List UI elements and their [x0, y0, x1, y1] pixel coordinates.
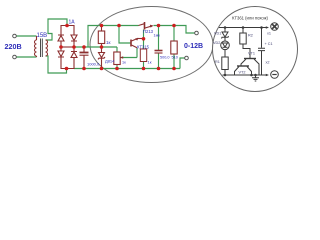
svg-text:Д814: Д814	[105, 59, 115, 64]
svg-text:+ С1: + С1	[265, 42, 273, 46]
svg-text:1к: 1к	[148, 60, 152, 65]
svg-text:КТ315: КТ315	[137, 45, 150, 50]
svg-text:П213: П213	[143, 29, 154, 34]
svg-text:15В: 15В	[37, 33, 48, 39]
svg-text:1к: 1к	[122, 61, 126, 65]
svg-text:R2: R2	[248, 34, 253, 38]
svg-text:х2: х2	[266, 61, 270, 65]
svg-text:VD1: VD1	[214, 32, 221, 36]
svg-text:1мк: 1мк	[154, 34, 161, 38]
svg-text:R1: R1	[215, 60, 220, 64]
svg-text:220В: 220В	[5, 42, 22, 51]
svg-text:500,0: 500,0	[160, 56, 170, 60]
svg-text:1000,0: 1000,0	[87, 62, 100, 67]
svg-text:1А: 1А	[69, 20, 76, 26]
svg-text:х1: х1	[267, 32, 271, 36]
svg-text:1к: 1к	[106, 40, 111, 45]
svg-text:КТ361 (или похож): КТ361 (или похож)	[232, 16, 269, 21]
svg-text:VD2: VD2	[213, 41, 220, 45]
svg-text:510: 510	[172, 56, 178, 60]
svg-text:VT1: VT1	[248, 52, 255, 56]
svg-text:VT2: VT2	[239, 71, 246, 75]
svg-text:0-12В: 0-12В	[184, 43, 203, 50]
